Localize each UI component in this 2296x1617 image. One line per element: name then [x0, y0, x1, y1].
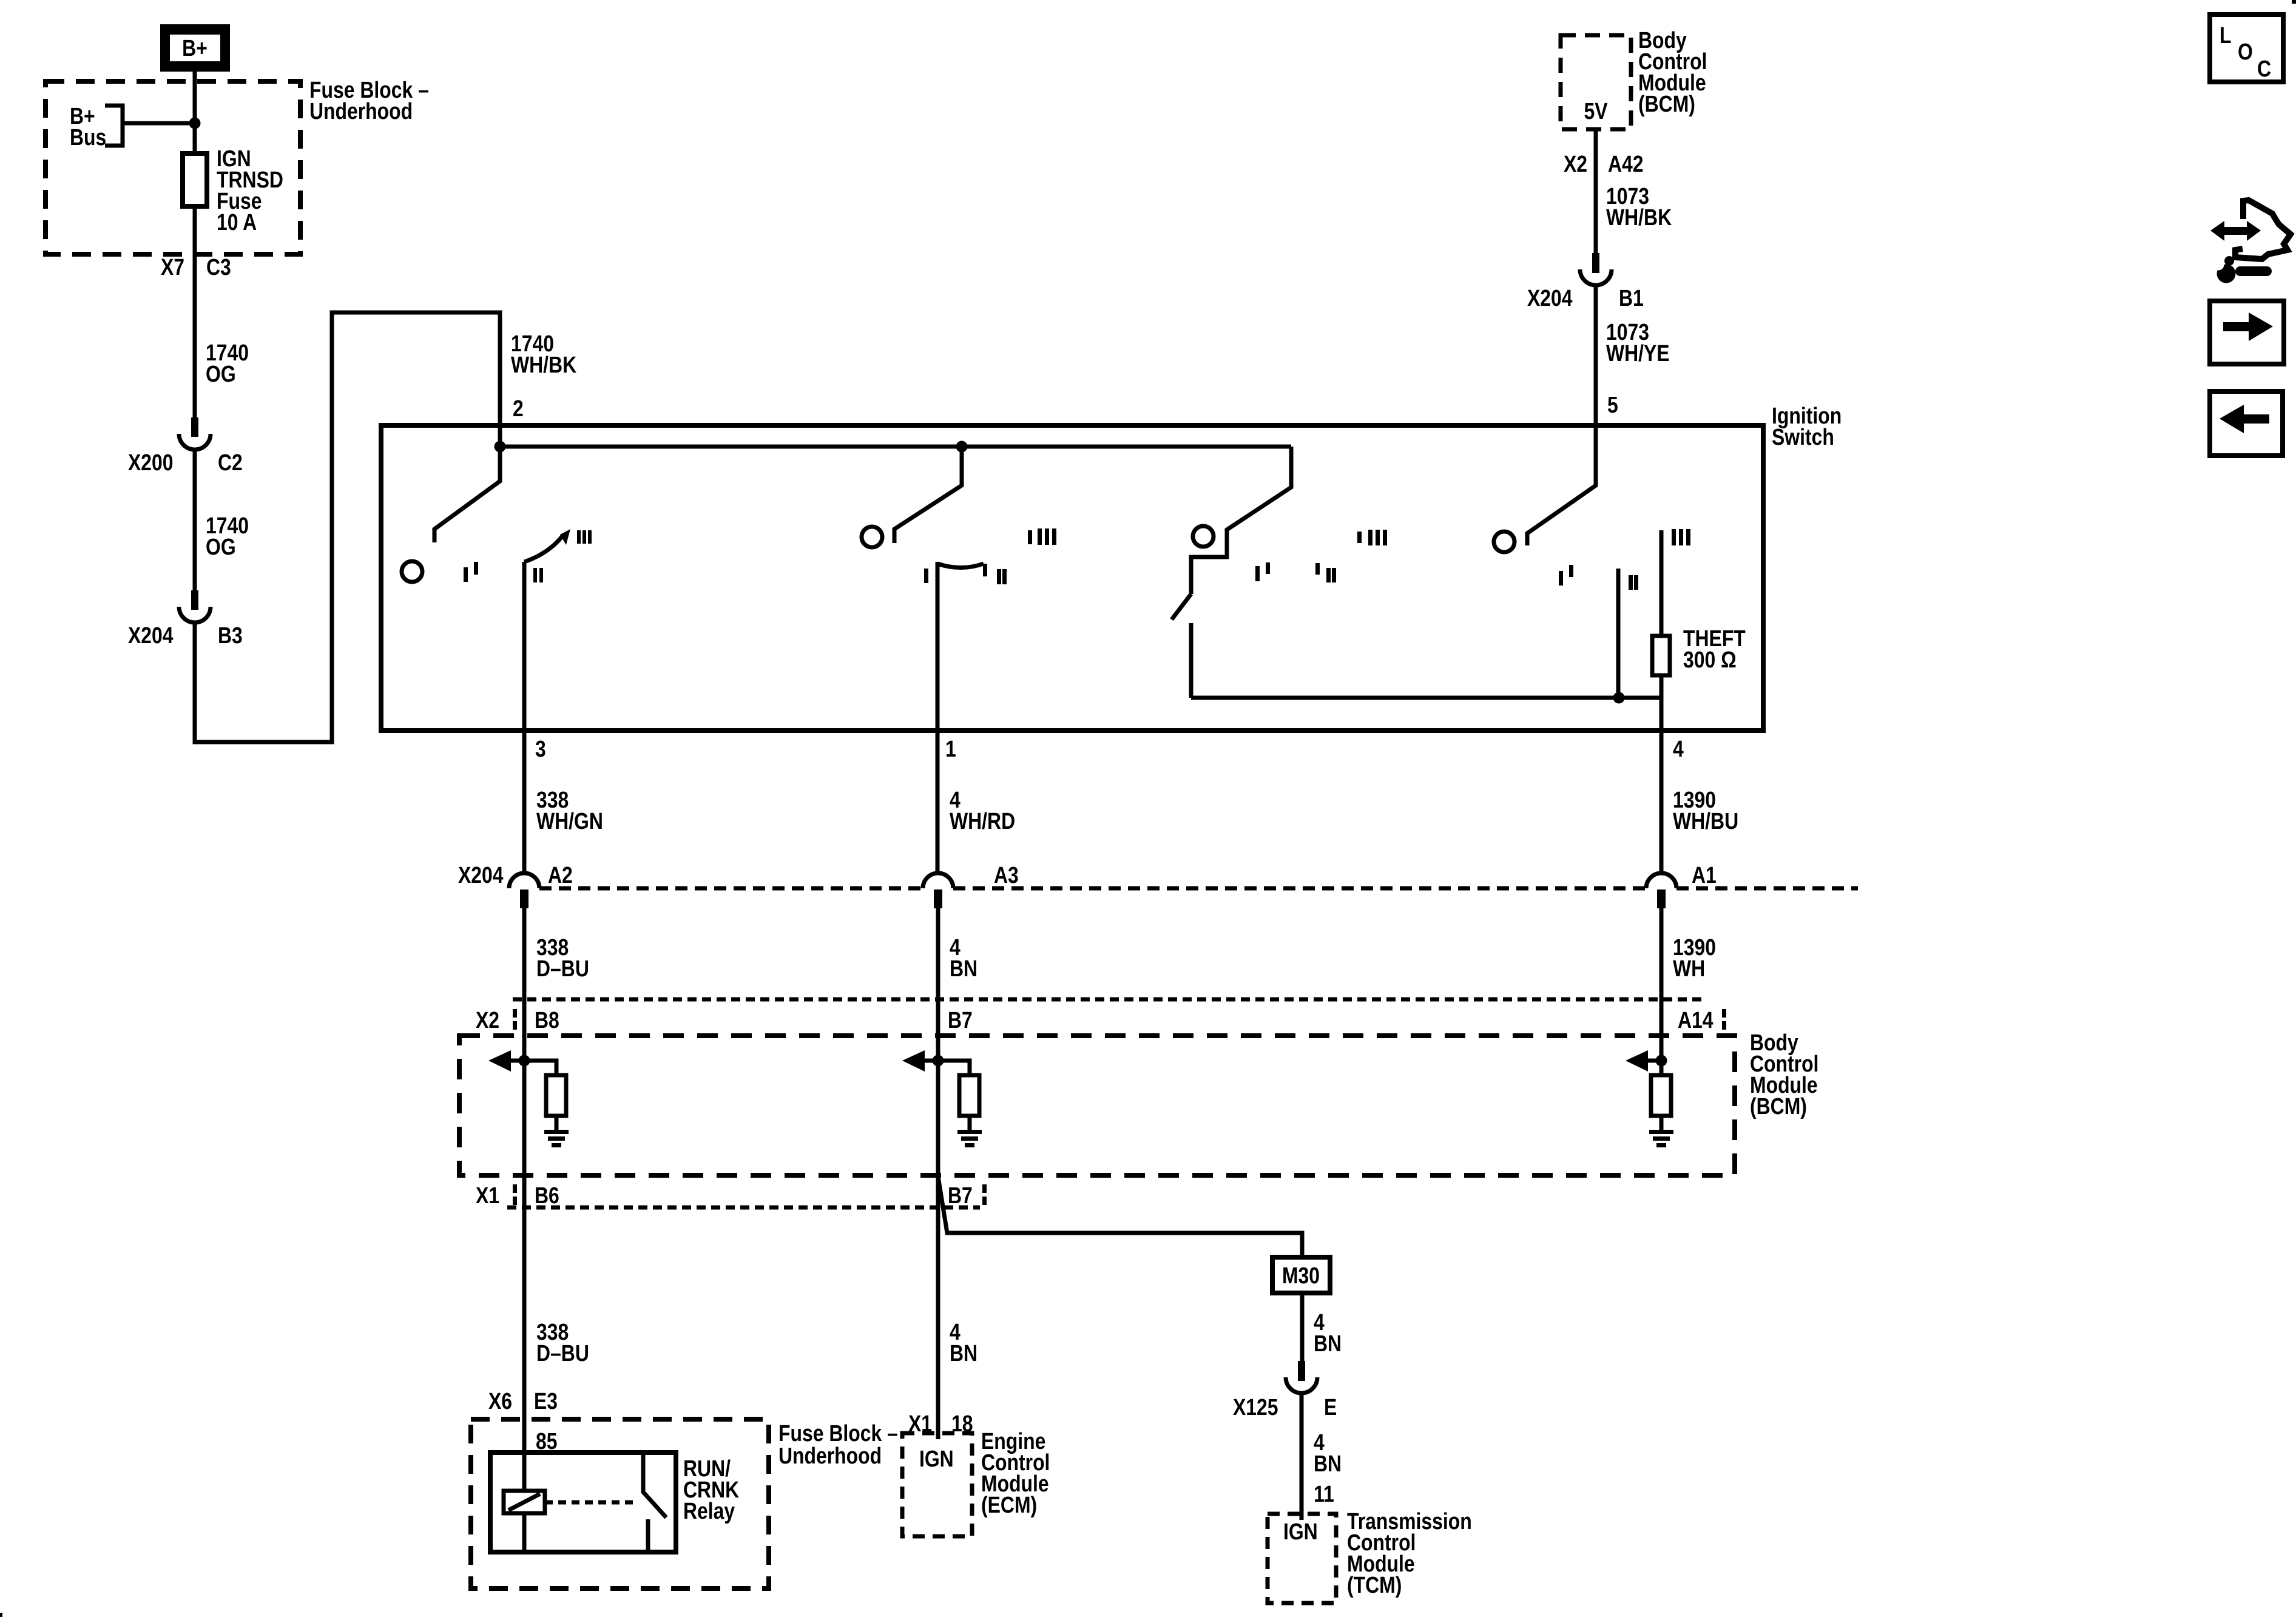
wire branch B7 to M30: [938, 1176, 1302, 1257]
pin 3 contact curve arrow: [524, 535, 563, 562]
svg-text:2: 2: [513, 396, 524, 421]
svg-text:B+: B+: [182, 35, 208, 61]
svg-text:WH/BK: WH/BK: [511, 352, 576, 377]
splice M30: [1272, 1257, 1330, 1293]
BCM module dashed box: [459, 1036, 1735, 1175]
relay coil: [504, 1491, 545, 1513]
arrow B7: [925, 1059, 938, 1063]
ground A14: [1649, 1130, 1673, 1134]
junction dot: [189, 118, 201, 129]
svg-text:IGN: IGN: [919, 1446, 954, 1471]
pole 2 mark I: [924, 569, 928, 583]
svg-text:C: C: [2257, 56, 2271, 81]
svg-text:WH: WH: [1673, 956, 1705, 981]
pole 4 terminal circle: [1494, 532, 1514, 552]
resistor B8: [524, 1061, 556, 1075]
arrow B8: [511, 1059, 524, 1063]
svg-text:BN: BN: [950, 956, 977, 981]
svg-text:BN: BN: [1314, 1331, 1342, 1356]
svg-text:A14: A14: [1678, 1007, 1714, 1033]
pole 1 mark III: [577, 530, 581, 544]
wire C2 to B3: [193, 450, 197, 590]
wire fuse to connector C2: [193, 206, 197, 417]
svg-text:M30: M30: [1282, 1263, 1320, 1288]
svg-text:X200: X200: [128, 450, 174, 475]
node bus junction: [956, 441, 968, 453]
wire pin 4: [1660, 675, 1664, 874]
svg-text:OG: OG: [206, 534, 236, 559]
pole 2 mark II: [997, 569, 1001, 584]
switch pole 1 wiper: [434, 447, 500, 542]
connector row X1 dotted line: [507, 1206, 980, 1210]
arrow A14: [1648, 1059, 1661, 1063]
svg-text:Switch: Switch: [1772, 424, 1834, 450]
svg-text:5: 5: [1607, 392, 1618, 417]
connector row X204 A3: [923, 862, 1019, 908]
svg-text:Underhood: Underhood: [309, 98, 413, 124]
wire pin 1: [936, 562, 940, 874]
node B7 junction: [933, 1055, 944, 1067]
pole 3 mark II: [1315, 563, 1320, 575]
wire B+ to fuse: [193, 72, 197, 154]
fuse IGN TRNSD 10 A: [183, 146, 283, 235]
switch pole 3 wiper: [1191, 447, 1291, 594]
svg-text:Bus: Bus: [70, 124, 106, 150]
connector X204 B1: [1527, 253, 1644, 311]
svg-text:WH/BK: WH/BK: [1606, 204, 1672, 230]
BCM 5V dashed box: [1561, 35, 1631, 129]
svg-text:X7: X7: [161, 254, 184, 280]
svg-text:(TCM): (TCM): [1347, 1572, 1402, 1598]
svg-text:1: 1: [945, 736, 956, 761]
svg-text:10 A: 10 A: [217, 209, 257, 235]
wire theft bottom bus: [1191, 696, 1661, 700]
svg-text:X1: X1: [476, 1183, 499, 1208]
svg-text:5V: 5V: [1584, 98, 1608, 124]
svg-text:(ECM): (ECM): [981, 1492, 1037, 1517]
node B+ Bus: [70, 103, 123, 150]
pole 1 mark I: [464, 567, 468, 582]
svg-text:IGN: IGN: [1283, 1519, 1318, 1544]
wire X125 to TCM: [1300, 1393, 1304, 1520]
svg-text:3: 3: [535, 736, 546, 761]
svg-text:X6: X6: [488, 1388, 512, 1414]
pole 3 contact blade open: [1172, 594, 1191, 619]
svg-text:D–BU: D–BU: [536, 1340, 589, 1366]
pole 2 terminal circle: [862, 527, 882, 547]
pole 3 mark I: [1255, 566, 1260, 581]
svg-text:X2: X2: [476, 1007, 499, 1033]
resistor B7: [938, 1061, 970, 1075]
switch pole 2 wiper: [894, 447, 962, 543]
svg-text:L: L: [2220, 22, 2231, 48]
wire A2 to BCM: [522, 908, 527, 1491]
node B8 junction: [519, 1055, 530, 1067]
pole 1 mark II: [533, 568, 537, 582]
connector X200 C2: [128, 417, 243, 476]
pole 1 terminal circle: [402, 561, 422, 582]
node pin2 junction: [495, 441, 506, 453]
svg-text:B7: B7: [948, 1007, 973, 1033]
corner mark top right: [2292, 0, 2296, 4]
fuse block underhood relay dashed box: [471, 1419, 769, 1588]
pole 2 mark III: [1028, 530, 1032, 544]
connector row X2 dotted line: [513, 998, 1705, 1002]
svg-text:BN: BN: [1314, 1451, 1342, 1476]
svg-text:Relay: Relay: [683, 1498, 735, 1524]
svg-text:B7: B7: [948, 1183, 973, 1208]
svg-text:WH/BU: WH/BU: [1673, 808, 1738, 834]
back arrow box: [2210, 391, 2283, 456]
svg-text:WH/GN: WH/GN: [536, 808, 603, 834]
dashed harness line X204 row: [539, 886, 1858, 891]
svg-text:D–BU: D–BU: [536, 956, 589, 981]
hotlink wrench icon: [2210, 200, 2291, 283]
junction dot: [1613, 692, 1625, 704]
wire A3 to ECM: [936, 908, 940, 1439]
node A14 junction: [1656, 1055, 1667, 1067]
B+ power symbol: [160, 24, 230, 72]
fuse block underhood dashed box: [46, 81, 300, 254]
svg-text:(BCM): (BCM): [1638, 91, 1695, 116]
svg-text:E3: E3: [534, 1388, 558, 1414]
svg-text:11: 11: [1314, 1481, 1334, 1507]
wire pin 3: [522, 562, 527, 874]
svg-text:300 Ω: 300 Ω: [1683, 647, 1737, 672]
svg-text:WH/YE: WH/YE: [1606, 340, 1670, 366]
svg-text:B3: B3: [218, 623, 243, 648]
svg-text:C2: C2: [218, 450, 243, 475]
connector row X204 A2: [458, 862, 573, 908]
resistor THEFT 300 ohm: [1652, 626, 1746, 675]
pole 4 contact II line: [1616, 569, 1621, 698]
wire 5V to B1: [1594, 129, 1598, 253]
svg-text:BN: BN: [950, 1340, 977, 1366]
connector row X204 A1: [1646, 862, 1717, 908]
svg-text:X204: X204: [1527, 285, 1573, 311]
pole 3 mark III: [1357, 532, 1362, 543]
svg-text:C3: C3: [206, 254, 231, 280]
ECM dashed box: [902, 1433, 972, 1536]
ground B8: [544, 1130, 569, 1134]
wire A1 to BCM A14: [1660, 908, 1664, 1075]
ground B7: [957, 1130, 982, 1134]
pole 2 contact arc: [937, 564, 984, 568]
svg-text:A2: A2: [548, 862, 573, 888]
svg-text:B8: B8: [535, 1007, 559, 1033]
wire M30 to X125: [1300, 1293, 1305, 1361]
wire B+ Bus to junction: [123, 121, 195, 126]
svg-text:4: 4: [1673, 736, 1684, 761]
svg-text:Underhood: Underhood: [778, 1443, 882, 1468]
switch pole 4 wiper from pin 5: [1527, 285, 1596, 545]
svg-text:OG: OG: [206, 361, 236, 387]
connector X204 B3: [128, 590, 243, 649]
svg-text:X125: X125: [1233, 1394, 1278, 1420]
svg-text:A42: A42: [1608, 151, 1644, 177]
relay RUN/CRNK box: [490, 1453, 676, 1552]
relay actuation dashed line: [545, 1501, 638, 1505]
forward arrow box: [2210, 301, 2284, 364]
pole 3 terminal circle: [1193, 526, 1214, 547]
wire coil to box bottom: [522, 1513, 527, 1552]
pole 4 mark I: [1559, 571, 1563, 586]
svg-text:A3: A3: [994, 862, 1019, 888]
svg-text:O: O: [2238, 39, 2253, 64]
wire B3 routed to ignition switch pin 2: [195, 312, 500, 742]
resistor A14: [1651, 1075, 1671, 1116]
svg-text:A1: A1: [1692, 862, 1717, 888]
svg-text:X204: X204: [128, 623, 174, 648]
svg-text:B1: B1: [1619, 285, 1644, 311]
connector X125 E: [1233, 1361, 1337, 1420]
bus wire inside switch: [500, 445, 1291, 449]
LOC legend box: [2210, 15, 2283, 82]
pole 4 contact III line: [1660, 530, 1664, 636]
svg-text:X2: X2: [1564, 151, 1587, 177]
svg-text:E: E: [1324, 1394, 1337, 1420]
pole 3 fixed contact: [1189, 623, 1194, 698]
svg-text:Fuse Block –: Fuse Block –: [778, 1420, 898, 1446]
corner mark bottom left: [0, 1613, 2, 1617]
svg-text:X204: X204: [458, 862, 504, 888]
svg-text:B6: B6: [535, 1183, 559, 1208]
ignition switch box: [381, 425, 1763, 731]
svg-text:(BCM): (BCM): [1750, 1093, 1807, 1119]
svg-text:WH/RD: WH/RD: [950, 808, 1015, 834]
TCM dashed box: [1268, 1514, 1336, 1603]
relay contact: [643, 1455, 666, 1517]
